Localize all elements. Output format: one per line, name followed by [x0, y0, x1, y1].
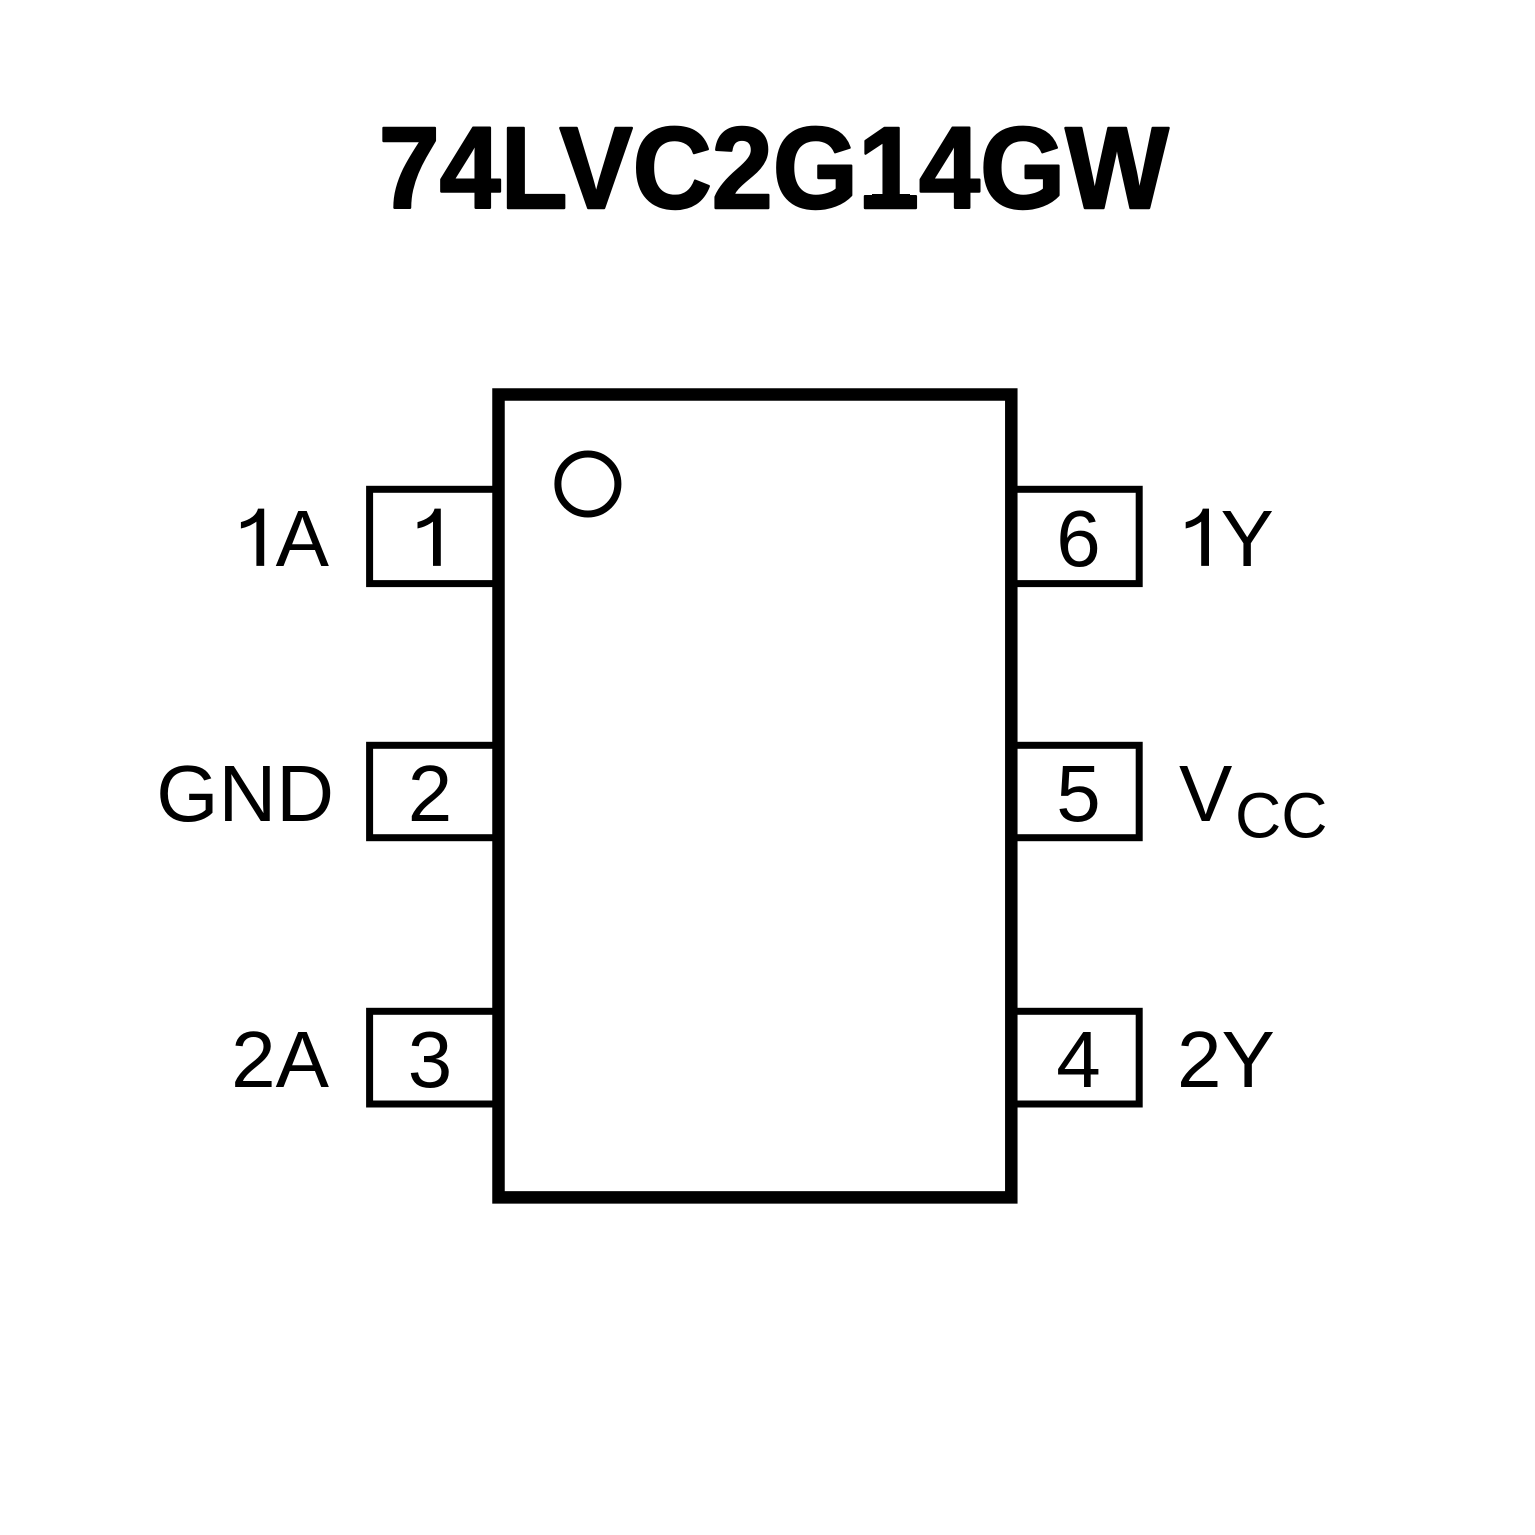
svg-text:A: A — [276, 494, 330, 583]
net label 2Y — [1177, 1015, 1275, 1104]
svg-text:2A: 2A — [231, 1015, 329, 1104]
svg-text:5: 5 — [1056, 749, 1101, 838]
pin 5 box — [1011, 745, 1139, 838]
net label 2A — [231, 1015, 329, 1104]
net label 1A — [241, 494, 330, 583]
svg-text:6: 6 — [1056, 494, 1101, 583]
pin 2 box — [370, 745, 499, 838]
pin 4 box — [1011, 1011, 1139, 1104]
pin 3 box — [370, 1011, 499, 1104]
net label 1Y — [1186, 494, 1274, 583]
pin 1 indicator circle — [558, 454, 618, 514]
net label VCC — [1179, 749, 1327, 852]
svg-text:Y: Y — [1221, 494, 1274, 583]
IC body U1 — [499, 395, 1012, 1198]
svg-text:GND: GND — [156, 749, 334, 838]
svg-text:V: V — [1179, 749, 1233, 838]
svg-text:CC: CC — [1235, 780, 1327, 852]
pin 1 box — [370, 489, 499, 583]
svg-text:2Y: 2Y — [1177, 1015, 1275, 1104]
svg-text:2: 2 — [408, 749, 453, 838]
pin 6 box — [1011, 489, 1139, 583]
svg-text:74LVC2G14GW: 74LVC2G14GW — [379, 103, 1169, 233]
svg-text:3: 3 — [408, 1015, 453, 1104]
title 74LVC2G14GW — [379, 103, 1169, 233]
net label GND — [156, 749, 334, 838]
svg-text:4: 4 — [1056, 1015, 1101, 1104]
